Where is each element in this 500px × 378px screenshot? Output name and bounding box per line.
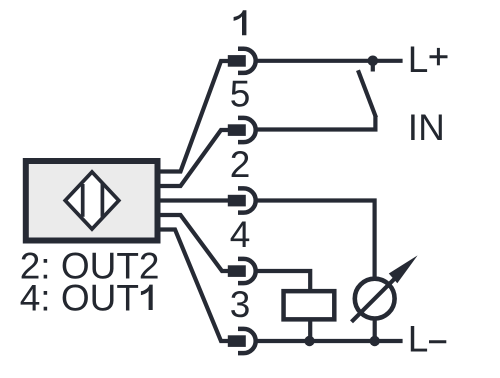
svg-text:4: 4 (230, 214, 251, 255)
svg-text:5: 5 (230, 74, 251, 115)
svg-text:L: L (408, 39, 429, 80)
svg-text:2: 2 (230, 144, 251, 185)
svg-text:IN: IN (408, 107, 445, 148)
svg-text:4: OUT: 4: OUT (20, 277, 139, 318)
svg-text:L: L (408, 319, 429, 360)
svg-text:3: 3 (230, 284, 251, 325)
